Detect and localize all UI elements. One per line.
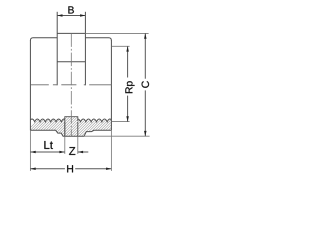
Rp bottom extension [112, 121, 130, 123]
arrow B right [80, 14, 85, 17]
arrow H right [106, 168, 111, 171]
socket bore wall right [84, 12, 86, 86]
H dimension line [30, 168, 65, 170]
body top face right with fillet [85, 38, 111, 41]
C top extension [85, 32, 148, 34]
collar top edge [57, 32, 85, 34]
Z right tail [78, 151, 89, 153]
body top face left with fillet [30, 38, 57, 41]
socket bore wall left [56, 12, 58, 86]
arrow C bottom [144, 131, 147, 136]
Lt dimension line + Z left tail [30, 151, 64, 153]
label Rp (rotated) [125, 81, 134, 93]
socket shoulder [57, 61, 85, 63]
thread wave right [78, 119, 112, 122]
Rp top extension [112, 45, 130, 47]
insert outline [65, 117, 78, 137]
Z left extension [64, 136, 66, 154]
arrow Rp bottom [126, 116, 129, 121]
label H [67, 165, 73, 172]
arrow C top [144, 33, 147, 38]
arrow B left [57, 14, 62, 17]
label Z [69, 147, 75, 155]
arrow Z right [78, 151, 83, 154]
label Lt [44, 141, 52, 149]
body right side [110, 40, 112, 130]
H left extension [29, 130, 31, 171]
label C (rotated) [142, 81, 149, 88]
section hatching [18, 108, 180, 140]
label B [68, 6, 73, 13]
hidden dashed line [30, 84, 111, 86]
arrow Lt left [30, 151, 35, 154]
body left side [29, 40, 31, 130]
arrow Lt right / Z left [59, 151, 64, 154]
arrow H left [30, 168, 35, 171]
B dimension line [57, 15, 85, 17]
H right extension [110, 130, 112, 171]
bottom profile [30, 130, 111, 136]
thread wave left [30, 119, 64, 122]
arrow Rp top [126, 46, 129, 51]
insert walls through section [64, 122, 66, 136]
Rp dimension line [127, 46, 129, 77]
centerline [70, 33, 72, 136]
C bottom extension [84, 135, 150, 137]
C dimension line [144, 33, 146, 78]
Z right extension [77, 136, 79, 154]
